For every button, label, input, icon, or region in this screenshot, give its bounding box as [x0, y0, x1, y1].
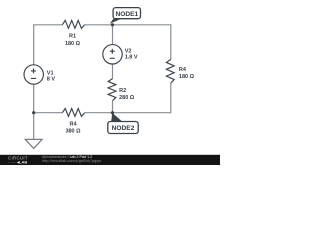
svg-text:V2: V2	[125, 48, 132, 54]
svg-text:R4: R4	[69, 122, 77, 128]
svg-text:NODE1: NODE1	[115, 11, 138, 18]
svg-text:8 V: 8 V	[47, 76, 56, 82]
svg-text:http;//circuitlab.com/c/gnf2sk: http;//circuitlab.com/c/gnf2sk7pgqw	[42, 159, 101, 163]
svg-text:180 Ω: 180 Ω	[65, 41, 81, 47]
svg-text:V1: V1	[47, 70, 54, 76]
svg-text:R4: R4	[179, 67, 187, 73]
svg-text:R2: R2	[119, 88, 126, 94]
svg-text:◂LAB: ◂LAB	[16, 159, 27, 164]
svg-text:—·—: —·—	[8, 160, 17, 164]
svg-text:180 Ω: 180 Ω	[179, 74, 195, 80]
svg-text:380 Ω: 380 Ω	[65, 129, 81, 135]
svg-text:NODE2: NODE2	[112, 125, 135, 132]
svg-text:R1: R1	[69, 34, 76, 40]
svg-text:280 Ω: 280 Ω	[119, 95, 135, 101]
svg-text:1.8 V: 1.8 V	[125, 54, 138, 60]
